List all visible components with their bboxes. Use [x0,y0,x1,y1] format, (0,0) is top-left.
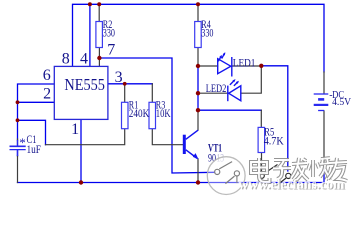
svg-text:1: 1 [71,121,79,138]
svg-text:10K: 10K [156,106,171,120]
svg-text:4: 4 [80,50,88,67]
svg-text:LED2: LED2 [206,81,227,95]
svg-text:330: 330 [201,26,213,40]
svg-text:www.elecfans.com: www.elecfans.com [238,177,345,192]
svg-text:4.7K: 4.7K [264,134,284,148]
svg-text:4.5V: 4.5V [332,97,352,108]
svg-text:7: 7 [107,41,115,58]
svg-text:240K: 240K [129,106,150,120]
svg-text:*: * [19,135,26,150]
svg-text:330: 330 [103,26,115,40]
svg-text:8: 8 [62,50,70,67]
svg-text:2: 2 [43,85,51,102]
svg-text:6: 6 [43,67,51,84]
svg-text:3: 3 [115,69,123,86]
svg-text:1uF: 1uF [27,142,42,156]
svg-text:LED1: LED1 [233,55,256,69]
svg-text:NE555: NE555 [64,75,105,94]
